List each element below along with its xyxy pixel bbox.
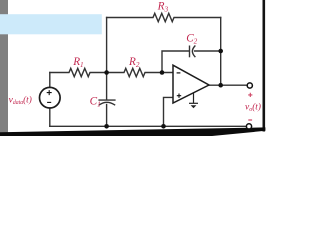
voltage source circle (40, 87, 61, 108)
wire: non-inverting input to ground rail (164, 97, 174, 126)
wire: main input line with resistor R1 and resistor R2 (50, 68, 173, 76)
gray sidebar strip (0, 0, 8, 136)
ground symbol bars (189, 102, 198, 104)
wire: bottom ground rail (50, 125, 247, 127)
wire: source bottom lead (49, 108, 51, 126)
wire: top feedback rail with resistor R3 (107, 13, 221, 21)
output terminal bottom (246, 124, 251, 129)
junction noninv/ground rail (161, 124, 166, 129)
page background (0, 0, 268, 136)
source minus sign (47, 101, 51, 103)
junction node inverting input (160, 70, 165, 75)
junction C2/right vertical (218, 49, 223, 54)
wire: op-amp output (208, 84, 248, 86)
junction C1/ground rail (104, 124, 109, 129)
right page-edge black line (263, 0, 266, 132)
junction node A (R1/R2/C1/R3) (104, 70, 109, 75)
op-amp U1 triangle (173, 65, 209, 103)
bottom page-edge black bar (0, 127, 265, 136)
wire: C2 to right vertical (195, 50, 221, 52)
svg-text:vo(t): vo(t) (245, 101, 261, 113)
wire: source top lead (49, 73, 51, 88)
capacitor C1 straight plate (99, 99, 115, 101)
wire: left vertical of feedback loop (106, 18, 108, 73)
output minus sign red (248, 119, 252, 121)
capacitor C2 straight plate (189, 46, 191, 56)
op-amp plus input sign (177, 94, 181, 98)
output terminal top (247, 83, 252, 88)
op-amp minus input sign (177, 72, 181, 74)
source plus sign (47, 90, 52, 95)
capacitor C2 curved plate (192, 46, 195, 57)
junction output node (218, 83, 223, 88)
wire: C2 branch top (162, 51, 189, 73)
wire: right vertical of feedback loop (220, 18, 222, 86)
blue highlight band (0, 14, 102, 34)
capacitor C1 curved plate (99, 102, 114, 105)
output plus sign red (248, 93, 252, 97)
wire: C1 branch upper (106, 73, 108, 100)
op-amp ground stem (193, 93, 195, 103)
wire: C1 branch lower (106, 105, 108, 127)
